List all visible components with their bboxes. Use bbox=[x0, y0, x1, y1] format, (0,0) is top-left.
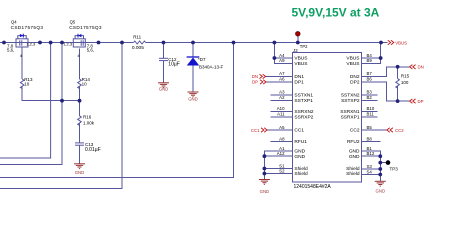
wire C12 drop bbox=[163, 43, 165, 59]
svg-text:SSTXP1: SSTXP1 bbox=[294, 98, 313, 104]
svg-text:B2: B2 bbox=[367, 95, 373, 100]
wire R14 column bbox=[79, 48, 81, 79]
svg-text:B12: B12 bbox=[367, 151, 375, 156]
resistor R15 bbox=[396, 79, 400, 89]
testpoint TP2 bbox=[296, 32, 301, 37]
svg-text:DP: DP bbox=[418, 99, 424, 104]
svg-text:A4: A4 bbox=[279, 53, 285, 58]
junction bus J2 VBUS tap bbox=[273, 41, 277, 45]
junction gate net B bbox=[60, 99, 64, 103]
svg-text:SSRXN2: SSRXN2 bbox=[294, 109, 314, 115]
svg-text:DN: DN bbox=[418, 65, 424, 70]
wire pin B3 bbox=[362, 94, 378, 96]
pin numbers J2 left bbox=[277, 53, 285, 174]
wire net C sense low bbox=[0, 43, 122, 189]
diode D7 bbox=[187, 57, 200, 66]
svg-text:SSRXP2: SSRXP2 bbox=[294, 114, 313, 120]
wire C13 to gnd bbox=[79, 145, 81, 164]
svg-text:A10: A10 bbox=[277, 106, 285, 111]
pin numbers J2 right bbox=[367, 53, 375, 175]
svg-text:GND: GND bbox=[260, 189, 270, 194]
junction Q5 drain pin bbox=[97, 41, 101, 45]
resistor R13 bbox=[20, 79, 24, 89]
resistor R14 bbox=[78, 79, 82, 89]
ground under D7 bbox=[188, 92, 199, 97]
resistor R11 bbox=[134, 41, 146, 44]
svg-text:CC2: CC2 bbox=[350, 128, 360, 134]
wire R13 gate horizontal bbox=[21, 47, 23, 79]
wire pin A11 bbox=[271, 116, 293, 118]
junction R15 top DN bbox=[396, 65, 400, 69]
svg-text:100: 100 bbox=[401, 80, 409, 85]
svg-text:10: 10 bbox=[82, 82, 88, 87]
svg-text:5,6,: 5,6, bbox=[7, 48, 14, 53]
svg-text:Shield: Shield bbox=[346, 171, 360, 177]
svg-text:DN: DN bbox=[252, 74, 258, 79]
junction TP3 stub bbox=[378, 161, 382, 165]
wire net A gate feed left bbox=[0, 43, 51, 158]
svg-text:DP2: DP2 bbox=[350, 79, 360, 85]
svg-text:0.005: 0.005 bbox=[132, 45, 144, 51]
junction bus TP2 bbox=[296, 41, 300, 45]
junction pin S2 bbox=[263, 172, 267, 176]
svg-text:*D7: *D7 bbox=[198, 57, 206, 62]
svg-text:A7: A7 bbox=[279, 71, 285, 76]
junction bus net C tap bbox=[120, 41, 124, 45]
junction pin A12 bbox=[263, 154, 267, 158]
svg-text:B340A-13-F: B340A-13-F bbox=[199, 65, 224, 70]
svg-text:S4: S4 bbox=[367, 169, 373, 174]
junction pin A4 bbox=[273, 56, 277, 60]
svg-text:DP1: DP1 bbox=[294, 79, 304, 85]
svg-text:R15: R15 bbox=[401, 74, 410, 79]
svg-text:B5: B5 bbox=[367, 125, 373, 130]
svg-text:DN2: DN2 bbox=[350, 74, 360, 80]
junction bus VBUS arrow bbox=[379, 41, 383, 45]
svg-text:S2: S2 bbox=[279, 168, 285, 173]
svg-text:VBUS: VBUS bbox=[346, 56, 359, 62]
junction bus D7 tap bbox=[191, 41, 195, 45]
svg-text:CC1: CC1 bbox=[294, 128, 304, 134]
svg-text:1,2,3: 1,2,3 bbox=[26, 41, 36, 46]
wire pin B6 DP2 to DP bbox=[362, 82, 410, 101]
svg-text:CSD17575Q3: CSD17575Q3 bbox=[69, 25, 102, 30]
connector J2 box bbox=[292, 53, 361, 182]
svg-text:B4: B4 bbox=[367, 53, 373, 58]
svg-text:GND: GND bbox=[349, 154, 360, 160]
svg-text:10µF: 10µF bbox=[168, 62, 180, 68]
resistor R15 leads bbox=[397, 67, 399, 79]
junction bus net A tap bbox=[49, 41, 53, 45]
ground under C13 bbox=[74, 164, 85, 169]
wire right VBUS pins B4 B9 bbox=[362, 43, 381, 59]
svg-text:SSTXP2: SSTXP2 bbox=[341, 98, 360, 104]
svg-text:A9: A9 bbox=[279, 58, 285, 63]
svg-text:Shield: Shield bbox=[294, 171, 308, 177]
wire TP2 lead bbox=[297, 36, 299, 43]
svg-text:A6: A6 bbox=[279, 77, 285, 82]
svg-text:B6: B6 bbox=[367, 77, 373, 82]
wire D7 drop bbox=[192, 43, 194, 58]
svg-text:B9: B9 bbox=[367, 58, 373, 63]
wire pin A6 DP1 bbox=[266, 81, 292, 83]
svg-text:TP3: TP3 bbox=[390, 167, 399, 172]
junction bus C12 tap bbox=[162, 41, 166, 45]
transistor Q5 bbox=[73, 34, 85, 47]
junction pin S1 bbox=[263, 167, 267, 171]
wire R16 to C13 bbox=[79, 123, 81, 143]
svg-text:A5: A5 bbox=[279, 125, 285, 130]
svg-text:SSTXN1: SSTXN1 bbox=[294, 92, 313, 98]
wire J2 VBUS drop bbox=[274, 43, 292, 63]
pin names J2 right column bbox=[340, 56, 360, 178]
svg-text:5V,9V,15V at 3A: 5V,9V,15V at 3A bbox=[292, 5, 380, 19]
junction pin B12 bbox=[378, 154, 382, 158]
svg-text:GND: GND bbox=[294, 154, 305, 160]
ground J2 right bbox=[375, 181, 386, 186]
wire pin B11 bbox=[362, 116, 378, 118]
junction pin S3 bbox=[378, 167, 382, 171]
svg-text:1.00k: 1.00k bbox=[83, 121, 95, 126]
ground under C12 bbox=[158, 83, 169, 88]
svg-text:B3: B3 bbox=[367, 90, 373, 95]
svg-text:VBUS: VBUS bbox=[395, 40, 407, 45]
wire pin B5 CC2 bbox=[362, 129, 387, 131]
pin names J2 left column bbox=[294, 56, 314, 178]
ground J2 left bbox=[259, 180, 270, 185]
svg-text:SSTXN2: SSTXN2 bbox=[341, 92, 360, 98]
svg-text:1,2,3: 1,2,3 bbox=[63, 41, 73, 46]
svg-text:VBUS: VBUS bbox=[294, 61, 307, 67]
svg-text:B8: B8 bbox=[367, 137, 373, 142]
svg-text:SSRXP1: SSRXP1 bbox=[341, 114, 360, 120]
net arrow DN right bbox=[410, 65, 416, 69]
net arrow CC1 left bbox=[261, 128, 267, 132]
svg-text:TP2: TP2 bbox=[300, 44, 308, 49]
junction bus net D tap bbox=[232, 41, 236, 45]
wire pin A8 RFU1 bbox=[271, 141, 293, 143]
wire right GND pins B1 B12 S3 S4 bbox=[362, 151, 381, 181]
svg-text:CC2: CC2 bbox=[395, 128, 404, 133]
svg-text:CSD17575Q3: CSD17575Q3 bbox=[11, 25, 44, 30]
wire pin A2 bbox=[271, 99, 293, 101]
wire pin A3 bbox=[271, 94, 293, 96]
svg-text:GND: GND bbox=[188, 97, 198, 102]
svg-text:J2: J2 bbox=[293, 48, 298, 53]
svg-text:CC1: CC1 bbox=[251, 128, 260, 133]
svg-text:B11: B11 bbox=[367, 112, 375, 117]
svg-text:GND: GND bbox=[349, 149, 360, 155]
wire pin A5 CC1 bbox=[267, 129, 292, 131]
junction pin S4 bbox=[378, 173, 382, 177]
testpoint TP3 bbox=[386, 160, 391, 165]
net arrow DP right bbox=[410, 99, 416, 103]
svg-text:Q5: Q5 bbox=[70, 19, 76, 24]
capacitor C13 bbox=[75, 143, 84, 145]
wire pin A7 DN1 bbox=[266, 75, 293, 77]
svg-text:S3: S3 bbox=[367, 164, 373, 169]
net arrow CC2 right bbox=[387, 128, 393, 132]
wire net D sense high bbox=[0, 43, 234, 178]
junction bus left edge bbox=[2, 41, 6, 45]
wire pin B10 bbox=[362, 111, 378, 113]
wire net B bbox=[0, 43, 62, 165]
junction R15 bottom DP bbox=[396, 99, 400, 103]
resistor R16 bbox=[78, 116, 82, 126]
svg-text:GND: GND bbox=[376, 189, 386, 194]
svg-text:DP: DP bbox=[252, 80, 258, 85]
svg-text:A3: A3 bbox=[279, 90, 285, 95]
svg-text:R16: R16 bbox=[83, 115, 92, 120]
svg-text:A1: A1 bbox=[279, 146, 285, 151]
net arrow DN left bbox=[260, 74, 266, 78]
svg-text:B10: B10 bbox=[367, 106, 375, 111]
svg-text:VBUS: VBUS bbox=[346, 61, 359, 67]
svg-text:Q4: Q4 bbox=[11, 19, 17, 24]
svg-text:10: 10 bbox=[24, 82, 30, 87]
svg-text:A8: A8 bbox=[279, 137, 285, 142]
svg-text:B7: B7 bbox=[367, 71, 373, 76]
wire VBUS bus bbox=[0, 42, 134, 44]
svg-text:B1: B1 bbox=[367, 146, 373, 151]
wire left GND pins A1 A12 S1 S2 bbox=[264, 151, 292, 180]
svg-text:A12: A12 bbox=[277, 151, 285, 156]
capacitor C12 bbox=[159, 58, 168, 60]
svg-text:5,6,: 5,6, bbox=[87, 48, 94, 53]
svg-text:RFU2: RFU2 bbox=[347, 139, 360, 145]
junction pin B4 bbox=[379, 56, 383, 60]
svg-text:VBUS: VBUS bbox=[294, 56, 307, 62]
svg-text:A2: A2 bbox=[279, 95, 285, 100]
svg-text:SSRXN1: SSRXN1 bbox=[340, 109, 360, 115]
svg-text:0.01µF: 0.01µF bbox=[85, 147, 101, 153]
wire pin B8 RFU2 bbox=[362, 141, 381, 143]
svg-text:GND: GND bbox=[294, 149, 305, 155]
junction Q4 source pin bbox=[38, 41, 42, 45]
svg-text:DN1: DN1 bbox=[294, 74, 304, 80]
svg-text:RFU1: RFU1 bbox=[294, 139, 307, 145]
wire pin B2 bbox=[362, 99, 378, 101]
junction gate R16 bbox=[78, 99, 82, 103]
wire pin B7 DN2 to DN bbox=[362, 67, 410, 77]
net arrow DP left bbox=[260, 80, 266, 84]
transistor Q4 bbox=[16, 34, 28, 47]
wire TP3 stub bbox=[380, 162, 386, 164]
wire pin A10 bbox=[271, 111, 293, 113]
svg-text:GND: GND bbox=[159, 87, 169, 92]
svg-text:12401548E4#2A: 12401548E4#2A bbox=[294, 184, 332, 190]
junction bus net B tap bbox=[60, 41, 64, 45]
svg-text:R11: R11 bbox=[133, 35, 141, 40]
svg-text:A11: A11 bbox=[277, 112, 285, 117]
svg-text:GND: GND bbox=[75, 170, 85, 175]
net arrow VBUS right bbox=[388, 40, 394, 44]
